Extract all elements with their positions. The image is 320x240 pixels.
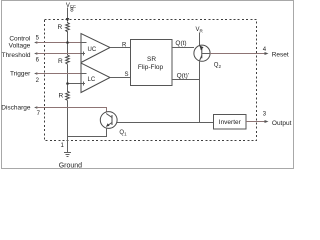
- svg-text:Voltage: Voltage: [9, 42, 31, 49]
- svg-text:SR: SR: [147, 56, 156, 63]
- svg-text:LC: LC: [88, 77, 96, 83]
- svg-text:Ground: Ground: [59, 162, 82, 169]
- svg-text:R: R: [122, 42, 127, 48]
- svg-text:R: R: [58, 58, 63, 65]
- svg-text:Inverter: Inverter: [219, 119, 242, 126]
- svg-text:6: 6: [36, 58, 40, 64]
- svg-text:2: 2: [36, 78, 40, 84]
- svg-text:5: 5: [36, 36, 40, 42]
- svg-text:Threshold: Threshold: [2, 52, 31, 59]
- svg-text:1: 1: [61, 143, 65, 149]
- svg-text:Q(t)’: Q(t)’: [177, 72, 190, 79]
- svg-text:Q1: Q1: [119, 130, 127, 136]
- svg-text:Trigger: Trigger: [10, 71, 31, 78]
- svg-text:Flip-Flop: Flip-Flop: [138, 64, 164, 71]
- svg-text:R: R: [59, 93, 64, 100]
- svg-text:3: 3: [263, 112, 267, 118]
- svg-text:4: 4: [263, 47, 267, 53]
- svg-text:R: R: [58, 24, 63, 31]
- svg-text:7: 7: [37, 111, 41, 117]
- svg-text:Q(t): Q(t): [175, 40, 186, 47]
- svg-text:Q2: Q2: [214, 63, 222, 69]
- svg-text:S: S: [125, 72, 129, 78]
- svg-text:Output: Output: [272, 120, 292, 127]
- svg-text:VR: VR: [196, 27, 204, 33]
- svg-text:UC: UC: [88, 47, 97, 53]
- svg-text:Discharge: Discharge: [1, 104, 31, 111]
- svg-text:Reset: Reset: [272, 52, 289, 59]
